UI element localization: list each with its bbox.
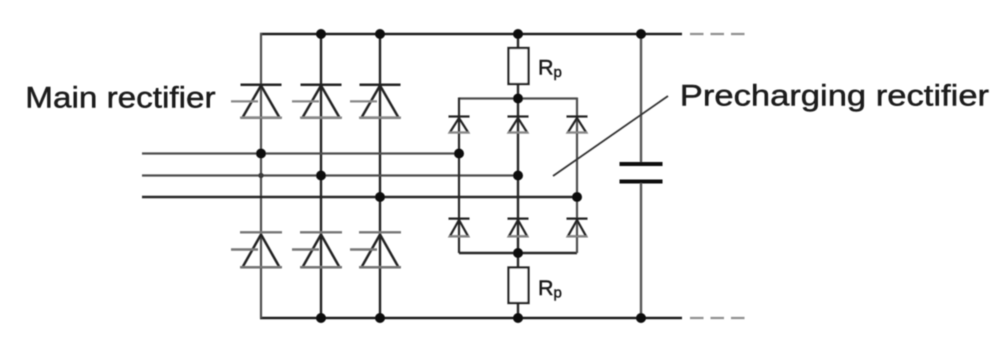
svg-text:Main rectifier: Main rectifier [25, 80, 216, 114]
svg-text:Precharging rectifier: Precharging rectifier [680, 79, 989, 112]
